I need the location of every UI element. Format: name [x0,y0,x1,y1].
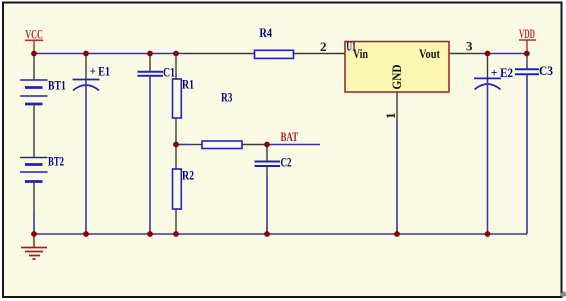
battery BT1 [20,54,66,105]
wire top rail right (blue) [478,53,527,55]
resistor R4 [255,25,294,58]
wire E2 to bottom rail [487,79,489,234]
wire R3 right pin [242,144,267,146]
capacitor C3 [515,54,553,79]
wire E1 to bottom rail [85,80,87,234]
wire BT2 to bottom rail [33,182,35,212]
node junction dots bottom rail [31,231,490,237]
wire top rail left (blue) [34,53,184,55]
wire C3 to bottom rail [526,75,528,235]
op-amp U1 (regulator) [345,39,449,92]
resistor R3 [202,90,242,149]
svg-text:R3: R3 [221,90,233,105]
wire R2 to bottom rail [175,209,177,234]
svg-text:C1: C1 [163,65,175,80]
svg-text:C3: C3 [539,63,553,78]
svg-text:2: 2 [320,39,327,54]
wire C2 to bottom rail [266,166,268,176]
wire C1 to bottom rail [149,76,151,234]
VDD [519,26,536,54]
svg-text:R4: R4 [259,25,272,40]
svg-text:+ E1: + E1 [90,64,110,79]
capacitor C1 [138,54,176,80]
VCC [25,27,43,54]
capacitor C2 [255,145,292,170]
wire U1 pin3 (dark) [449,53,478,55]
svg-text:R1: R1 [182,77,194,92]
corner mark [560,291,566,297]
wire top to R4 (dark) [184,53,255,55]
svg-text:BT2: BT2 [48,154,64,169]
svg-text:BT1: BT1 [48,78,66,93]
node junction dots middle rail [173,142,270,148]
wire R1 to middle rail [175,118,177,145]
resistor R2 [173,145,195,210]
wire bottom rail [34,233,527,235]
svg-text:+ E2: + E2 [491,65,513,80]
svg-text:BAT: BAT [281,129,299,144]
wire R4 to U1 pin2 (dark) [293,53,345,55]
pin 1 wire [396,92,398,121]
svg-text:Vin: Vin [353,46,369,61]
wire BAT stub [267,144,320,146]
svg-text:C2: C2 [281,155,292,170]
battery BT2 [20,154,64,182]
svg-text:VCC: VCC [25,27,43,42]
wire middle rail blue stub [176,144,190,146]
svg-text:VDD: VDD [519,26,535,41]
wire BT1-BT2 [33,104,35,158]
svg-text:R2: R2 [182,168,194,183]
resistor R1 [173,54,195,119]
capacitor E2 (electrolytic) [474,54,513,90]
ground [21,234,47,259]
svg-text:1: 1 [383,113,398,120]
node junction dots top rail [31,51,530,57]
svg-text:3: 3 [466,39,473,54]
svg-text:GND: GND [389,65,404,90]
wire R3 left pin [190,144,202,146]
svg-text:Vout: Vout [419,46,441,61]
capacitor E1 (electrolytic) [73,54,111,91]
